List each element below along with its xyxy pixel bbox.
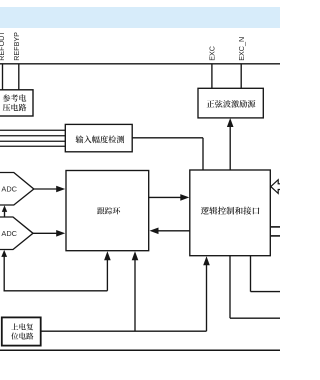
svg-text:ADC: ADC bbox=[1, 229, 17, 238]
svg-text:EXC_N: EXC_N bbox=[237, 37, 246, 61]
svg-text:ADC: ADC bbox=[1, 185, 17, 194]
svg-text:REFOUT: REFOUT bbox=[0, 31, 6, 61]
svg-text:EXC: EXC bbox=[207, 46, 216, 61]
svg-text:REFBYP: REFBYP bbox=[12, 32, 21, 61]
